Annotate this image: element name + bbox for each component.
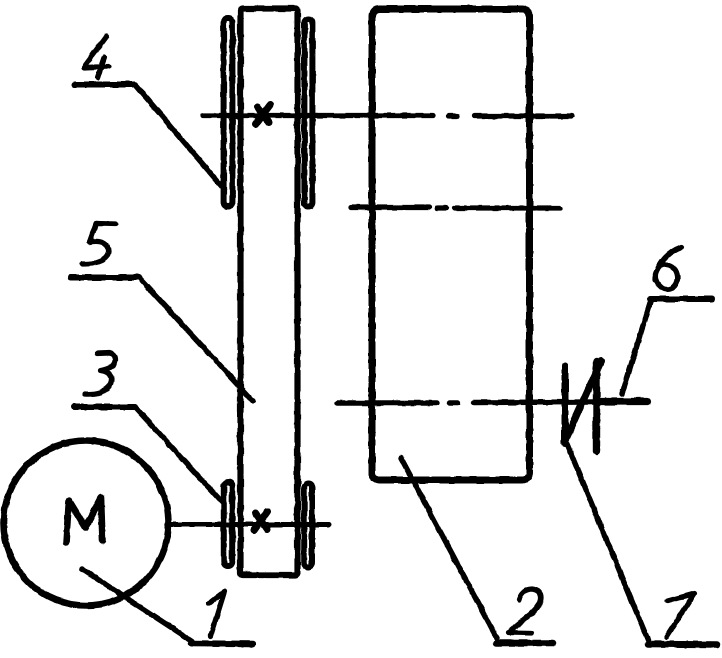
coupling 7 right bar bbox=[593, 362, 600, 451]
label 6 digit bbox=[654, 247, 681, 280]
pulley 4 left flange bbox=[224, 18, 233, 206]
label 2 leader bbox=[401, 458, 497, 638]
label 7 underline bbox=[648, 641, 717, 648]
motor M1 (pos.1) bbox=[4, 441, 169, 606]
label 4 underline bbox=[74, 82, 135, 88]
label 1 leader bbox=[82, 569, 192, 641]
label 4 leader bbox=[135, 85, 224, 190]
label 3 underline bbox=[74, 404, 135, 410]
belt 5 bbox=[241, 9, 298, 576]
coupling diagonal bbox=[564, 361, 601, 443]
label 6 underline bbox=[650, 296, 712, 302]
drum 2 bbox=[372, 9, 530, 480]
label 3 digit bbox=[85, 353, 116, 394]
label 7 leader bbox=[567, 444, 648, 640]
label 1 underline bbox=[191, 640, 253, 647]
pulley 4 right flange bbox=[304, 19, 312, 207]
centerline bottom / output shaft bbox=[337, 402, 600, 403]
label 7 digit bbox=[667, 594, 695, 638]
centerline top shaft bbox=[203, 113, 572, 119]
label 5 underline bbox=[71, 275, 139, 281]
output shaft stub right of coupling bbox=[600, 398, 647, 405]
label 4 digit bbox=[84, 36, 109, 78]
X mark top shaft bbox=[256, 105, 271, 125]
centerline middle bbox=[351, 205, 560, 211]
pulley 3 right flange bbox=[304, 484, 312, 568]
X mark bottom shaft bbox=[254, 512, 268, 531]
pulley 3 left flange bbox=[224, 482, 232, 566]
label 5 digit bbox=[82, 224, 116, 265]
label 5 leader bbox=[139, 278, 253, 402]
letter M bbox=[66, 498, 103, 543]
coupling 7 left bar bbox=[562, 366, 569, 444]
label 1 digit bbox=[210, 592, 225, 637]
label 2 digit bbox=[509, 589, 542, 633]
label 3 leader bbox=[135, 407, 222, 502]
label 2 underline bbox=[496, 640, 553, 647]
motor shaft (bottom) bbox=[167, 522, 329, 527]
label 6 leader bbox=[622, 300, 651, 394]
